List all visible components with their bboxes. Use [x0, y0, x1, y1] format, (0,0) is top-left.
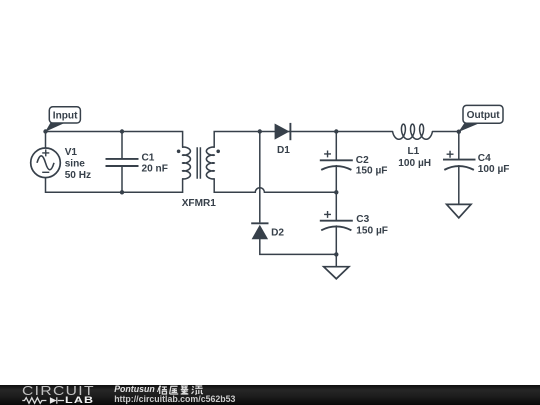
wire top primary (V1 top to XFMR1 primary top): [46, 132, 183, 148]
schematic title: [114, 384, 159, 394]
wire V1 bottom stub: [45, 178, 47, 193]
svg-text:D2: D2: [271, 228, 284, 239]
capacitor C3: [320, 211, 353, 230]
wire V1 top stub: [45, 132, 47, 148]
node dot C2 top: [334, 129, 338, 133]
svg-text:100 µH: 100 µH: [398, 158, 431, 169]
wire D2 anode to bottom wire: [260, 239, 337, 254]
svg-text:C3: C3: [356, 214, 369, 225]
wire top secondary (XFMR1 secondary top to L1 left): [214, 132, 392, 148]
wire C3 ground stub: [335, 254, 337, 266]
ground under C4: [447, 204, 471, 217]
wire C1 top stub: [121, 132, 123, 159]
wire C2 bottom stub: [335, 166, 337, 193]
wire mid secondary with hop over D2 branch: [214, 179, 336, 193]
C2 label: [356, 155, 388, 177]
wire C3 bottom stub: [335, 226, 337, 254]
svg-text:sine: sine: [65, 159, 86, 170]
svg-text:Output: Output: [467, 110, 501, 121]
wire C1 bottom stub: [121, 167, 123, 192]
capacitor C1: [106, 159, 139, 166]
C4 label: [478, 153, 510, 175]
voltage source V1: [31, 148, 61, 178]
svg-text:L1: L1: [408, 146, 420, 157]
node dot input: [43, 129, 47, 133]
svg-text:150 µF: 150 µF: [356, 165, 388, 176]
Input flag pointer: [45, 123, 64, 132]
transformer XFMR1: [183, 147, 215, 179]
wire D2 branch vertical (top node to D2 cathode): [259, 132, 261, 222]
schematic title CJK 倍压整流: [158, 385, 204, 395]
svg-text:C4: C4: [478, 153, 491, 164]
svg-text:100 µF: 100 µF: [478, 164, 510, 175]
Output flag pointer: [458, 123, 479, 132]
svg-text:20 nF: 20 nF: [142, 164, 168, 175]
XFMR1 label: [182, 198, 217, 209]
svg-text:V1: V1: [65, 147, 78, 158]
diode D1: [275, 123, 291, 140]
svg-text:C2: C2: [356, 155, 369, 166]
C1 label: [142, 152, 168, 174]
diode D2: [251, 223, 268, 239]
svg-text:D1: D1: [277, 145, 290, 156]
svg-text:150 µF: 150 µF: [356, 225, 388, 236]
schematic url: [114, 394, 235, 404]
D2 label: [271, 228, 284, 239]
svg-text:C1: C1: [142, 152, 155, 163]
capacitor C4: [443, 151, 476, 170]
node dot output: [457, 130, 461, 134]
node dot C1 top: [120, 129, 124, 133]
Output flag: [463, 105, 503, 123]
svg-text:XFMR1: XFMR1: [182, 198, 217, 209]
wire C4 bottom to ground: [458, 166, 460, 205]
V1 label: [65, 147, 91, 181]
CircuitLab logo resistor+diode glyph: [0, 396, 66, 405]
node dot C2/C3 mid: [334, 190, 338, 194]
XFMR1 phase dot primary: [177, 150, 181, 154]
wire C2 top stub: [335, 132, 337, 160]
D1 label: [277, 145, 290, 156]
svg-text:50 Hz: 50 Hz: [65, 170, 91, 181]
wire bottom primary (V1 bottom to XFMR1 primary bottom): [46, 179, 183, 193]
C3 label: [356, 214, 388, 236]
node dot C1 bottom: [120, 190, 124, 194]
node dot D2 branch top: [258, 129, 262, 133]
bottom bar: [0, 385, 540, 405]
XFMR1 phase dot secondary: [216, 150, 220, 154]
L1 label: [398, 146, 431, 169]
node dot C3 bottom: [334, 252, 338, 256]
wire output node down to C4: [458, 132, 460, 159]
wire L1 right to output node: [432, 131, 458, 133]
CircuitLab logo CIRCUIT: [22, 384, 95, 398]
capacitor C2: [320, 151, 353, 170]
svg-text:Input: Input: [53, 111, 78, 122]
wire C3 top stub: [335, 192, 337, 219]
Input flag: [49, 107, 80, 123]
inductor L1: [393, 124, 433, 139]
ground under C3: [324, 267, 349, 279]
CircuitLab logo LAB: [65, 394, 94, 405]
